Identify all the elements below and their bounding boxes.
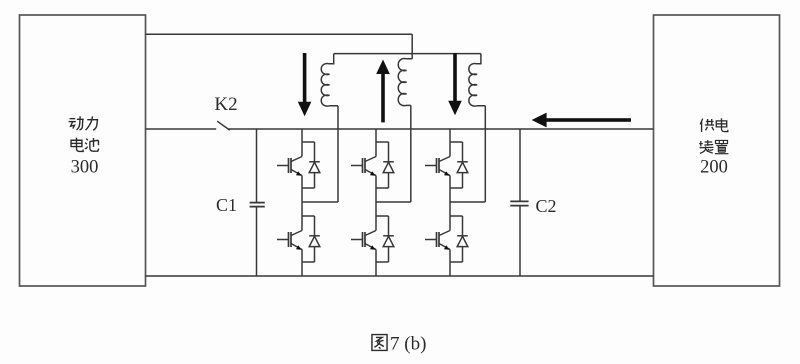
caption: 图7(b) figure label bbox=[372, 334, 426, 355]
label C1 bbox=[216, 195, 237, 215]
diode D3 bbox=[383, 162, 394, 173]
wire: leg 3 midpoint stub to winding lead bbox=[450, 201, 485, 203]
wire: leg 2 lower vertical to return bus bbox=[375, 250, 377, 277]
arrow: current direction down through L3 bbox=[448, 53, 462, 115]
svg-text:300: 300 bbox=[71, 158, 99, 178]
transistor Q5 (upper IGBT leg 3) bbox=[425, 157, 450, 176]
label K2 bbox=[214, 94, 237, 115]
diode D1 bbox=[309, 162, 320, 173]
wire: diode D6 branch return bbox=[450, 247, 463, 262]
wire: diode D3 branch (upper cell leg 2) bbox=[376, 142, 389, 162]
label: 装置 (supply text line 2) bbox=[699, 140, 728, 154]
svg-text:7 (b): 7 (b) bbox=[390, 334, 426, 355]
block: power supply device 200 (供电装置) bbox=[654, 15, 780, 286]
wire: diode D2 branch return bbox=[302, 247, 315, 262]
wire: diode D5 branch return bbox=[450, 173, 463, 188]
wire: leg 3 upper vertical from dc bus bbox=[449, 129, 451, 157]
svg-text:C2: C2 bbox=[535, 196, 556, 216]
arrow: current direction down through L1 bbox=[298, 53, 312, 116]
wire: diode D1 branch return bbox=[302, 173, 315, 188]
label: 300 (battery reference numeral) bbox=[71, 158, 99, 178]
capacitor C2 bbox=[510, 129, 528, 276]
wire: diode D5 branch (upper cell leg 3) bbox=[450, 142, 463, 162]
wire: leg 2 midpoint vertical bbox=[375, 176, 377, 231]
wire: leg 3 lower vertical to return bus bbox=[449, 250, 451, 277]
label C2 bbox=[535, 196, 556, 216]
wire: middle winding top lead vertical bbox=[411, 34, 413, 59]
wire: dc bus right segment (switch K2 to supply device) bbox=[229, 128, 654, 130]
wire: leg 2 upper vertical from dc bus bbox=[375, 129, 377, 157]
capacitor C1 bbox=[250, 129, 265, 276]
wire: dc bus left segment (battery to switch K2) bbox=[146, 128, 217, 130]
inductor L2 (middle motor winding) bbox=[398, 59, 412, 106]
svg-text:200: 200 bbox=[700, 158, 728, 178]
wire: L3 bottom lead down to leg3 midpoint bbox=[484, 106, 486, 202]
label: 电池 (battery text line 2) bbox=[71, 138, 99, 152]
inductor L3 (right motor winding) bbox=[469, 54, 485, 106]
svg-text:K2: K2 bbox=[214, 94, 237, 115]
transistor Q4 (lower IGBT leg 2) bbox=[351, 231, 376, 250]
wire: diode D2 branch (lower cell leg 1) bbox=[302, 216, 315, 236]
inductor L1 (left motor winding) bbox=[321, 54, 338, 106]
label: 200 (supply reference numeral) bbox=[700, 158, 728, 178]
arrow: charge current into supply device (leftward) bbox=[532, 113, 631, 128]
wire: leg 2 midpoint stub to winding lead bbox=[376, 201, 411, 203]
wire: L1 bottom lead down to leg1 midpoint bbox=[337, 106, 339, 202]
wire: diode D6 branch (lower cell leg 3) bbox=[450, 216, 463, 236]
wire: leg 1 upper vertical from dc bus bbox=[301, 129, 303, 157]
wire: L2 bottom lead down to leg2 midpoint bbox=[410, 105, 412, 202]
diode D5 bbox=[457, 162, 468, 173]
wire: top wire from battery to middle winding top bbox=[146, 33, 413, 35]
wire: diode D3 branch return bbox=[376, 173, 389, 188]
transistor Q6 (lower IGBT leg 3) bbox=[425, 231, 450, 250]
transistor Q1 (upper IGBT leg 1) bbox=[277, 157, 302, 176]
transistor Q2 (lower IGBT leg 1) bbox=[277, 231, 302, 250]
label: 动力 (battery text line 1) bbox=[69, 116, 98, 130]
wire: leg 1 midpoint vertical bbox=[301, 176, 303, 231]
wire: bottom return bus bbox=[146, 275, 654, 277]
diode D6 bbox=[457, 236, 468, 247]
wire: leg 3 midpoint vertical bbox=[449, 176, 451, 231]
wire: diode D4 branch (lower cell leg 2) bbox=[376, 216, 389, 236]
block: power battery 300 (动力电池) bbox=[20, 15, 146, 286]
svg-text:C1: C1 bbox=[216, 195, 237, 215]
wire: phase tie wire joining winding L1 and L3 tops bbox=[334, 53, 481, 55]
diode D2 bbox=[309, 236, 320, 247]
wire: diode D4 branch return bbox=[376, 247, 389, 262]
label: 供电 (supply text line 1) bbox=[700, 118, 728, 132]
diode D4 bbox=[383, 236, 394, 247]
wire: leg 1 lower vertical to return bus bbox=[301, 250, 303, 277]
arrow: current direction up through L2 bbox=[376, 60, 390, 123]
wire: diode D1 branch (upper cell leg 1) bbox=[302, 142, 315, 162]
wire: leg 1 midpoint stub to winding lead bbox=[302, 201, 338, 203]
transistor Q3 (upper IGBT leg 2) bbox=[351, 157, 376, 176]
switch K2 blade bbox=[217, 121, 230, 130]
